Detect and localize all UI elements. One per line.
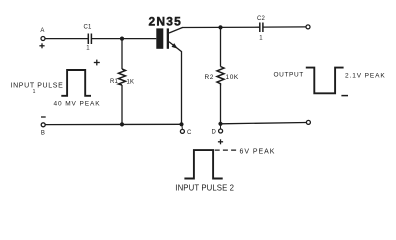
svg-text:INPUT PULSE 2: INPUT PULSE 2 — [175, 183, 234, 191]
svg-text:B: B — [41, 131, 45, 137]
svg-text:R2: R2 — [205, 74, 215, 81]
svg-text:1: 1 — [33, 89, 36, 95]
svg-text:A: A — [40, 28, 44, 34]
svg-text:2.1V PEAK: 2.1V PEAK — [345, 73, 386, 80]
node: junction R2 bottom — [218, 122, 222, 126]
input pulse 1 label — [11, 83, 64, 96]
svg-text:C: C — [187, 130, 192, 136]
svg-text:6V PEAK: 6V PEAK — [240, 149, 276, 156]
capacitor C1 — [83, 25, 92, 52]
terminal B — [41, 117, 46, 137]
terminal bottom right — [306, 120, 310, 124]
terminal A — [39, 28, 45, 48]
resistor R1 — [110, 39, 134, 125]
svg-text:C2: C2 — [257, 16, 266, 22]
capacitor C2 — [257, 16, 266, 42]
input pulse 1 waveform — [61, 60, 100, 96]
node: junction R1 bottom — [120, 122, 124, 126]
wire C1 to base — [91, 38, 156, 40]
terminal top right — [306, 25, 310, 29]
bottom rail right — [221, 123, 307, 124]
collector wire — [169, 28, 183, 34]
top rail left of C2 — [182, 26, 260, 28]
svg-text:OUTPUT: OUTPUT — [274, 72, 304, 79]
svg-text:C1: C1 — [83, 25, 92, 31]
svg-text:1K: 1K — [127, 80, 135, 86]
input pulse 2 waveform — [184, 150, 237, 178]
terminal C — [180, 124, 192, 136]
terminal D — [212, 124, 224, 145]
svg-text:10K: 10K — [226, 74, 239, 81]
svg-text:INPUT PULSE: INPUT PULSE — [11, 83, 64, 90]
bottom rail left — [45, 123, 181, 125]
node: junction R2 top — [218, 25, 222, 29]
svg-text:R1: R1 — [110, 79, 119, 85]
node: junction R1 top — [120, 37, 124, 41]
node: emitter junction — [179, 122, 183, 126]
svg-text:1: 1 — [86, 46, 90, 52]
resistor R2 — [205, 27, 239, 123]
svg-text:40 MV PEAK: 40 MV PEAK — [54, 101, 101, 108]
wire A to C1 — [45, 38, 88, 40]
emitter wire with arrow — [169, 42, 182, 125]
top rail right of C2 — [263, 26, 306, 28]
output waveform — [306, 68, 348, 96]
svg-text:D: D — [212, 130, 217, 136]
svg-text:1: 1 — [259, 36, 263, 42]
transistor Q1 2N35 — [149, 15, 183, 49]
svg-text:2N35: 2N35 — [149, 15, 183, 29]
